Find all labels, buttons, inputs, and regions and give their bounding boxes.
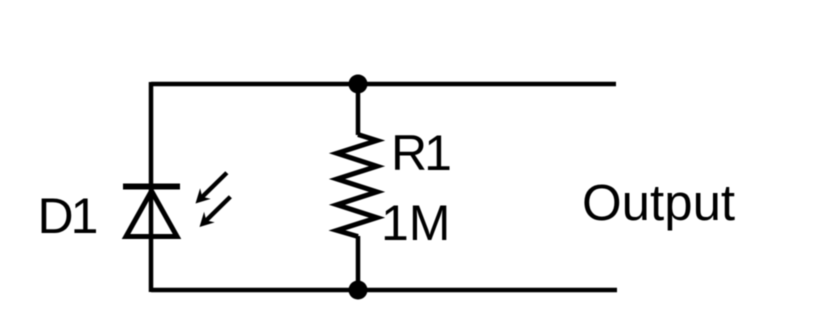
resistor R1 1M zigzag: [337, 135, 377, 237]
svg-text:1M: 1M: [381, 195, 450, 251]
wire left vertical through D1: [149, 82, 154, 292]
light arrow upper into D1: [196, 171, 229, 203]
node junction dot top: [349, 75, 368, 94]
light arrow lower into D1: [200, 195, 232, 227]
svg-text:Output: Output: [582, 174, 735, 231]
svg-text:D1: D1: [38, 188, 97, 244]
photodiode D1 triangle: [126, 191, 177, 237]
wire top: node between D1, R1 and output: [151, 82, 616, 87]
photodiode D1 cathode bar: [123, 184, 180, 190]
wire resistor top lead: [356, 84, 361, 135]
node junction dot bottom: [349, 281, 368, 300]
svg-text:R1: R1: [391, 125, 450, 181]
wire resistor bottom lead: [356, 236, 361, 290]
wire bottom: return between D1, R1 and output: [151, 288, 617, 293]
